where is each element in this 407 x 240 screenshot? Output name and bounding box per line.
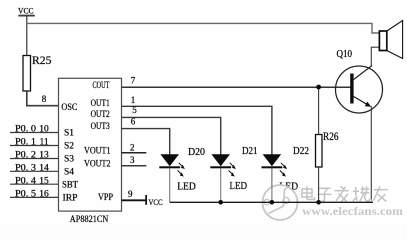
svg-text:R26: R26: [323, 131, 339, 143]
svg-text:COUT: COUT: [93, 81, 110, 91]
svg-text:P0. 2: P0. 2: [15, 151, 36, 161]
svg-text:14: 14: [39, 163, 49, 173]
svg-text:P0. 4: P0. 4: [15, 176, 36, 186]
svg-text:P0. 1: P0. 1: [15, 138, 36, 148]
svg-text:OUT1: OUT1: [91, 99, 110, 109]
wire D21 cathode to ground rail: [220, 168, 222, 202]
junction node R26/rail: [316, 200, 321, 205]
node P0.3 label row: [10, 163, 58, 173]
svg-text:13: 13: [39, 151, 49, 161]
junction node at base wire / R26: [316, 85, 321, 90]
svg-text:P0. 5: P0. 5: [15, 190, 36, 200]
transistor Q10: [336, 66, 383, 114]
watermark text dian zi fa shao you (approximated strokes): [303, 187, 389, 203]
junction node D22/rail: [270, 200, 275, 205]
svg-text:3: 3: [130, 155, 135, 165]
svg-text:OSC: OSC: [61, 103, 77, 113]
svg-text:1: 1: [131, 95, 136, 105]
svg-text:VPP: VPP: [98, 193, 113, 203]
svg-text:S3: S3: [64, 155, 74, 165]
watermark dot grid: [296, 187, 301, 199]
wire OUT1 to D22 (pin 1): [122, 106, 272, 154]
speaker LS1: [371, 21, 403, 59]
svg-text:D22: D22: [293, 146, 309, 157]
svg-text:P0. 0: P0. 0: [15, 125, 36, 135]
svg-text:7: 7: [131, 76, 136, 86]
LED D20: [159, 147, 205, 192]
svg-text:9: 9: [128, 189, 133, 199]
wire COUT to transistor base (pin 7): [122, 86, 351, 88]
svg-text:OUT2: OUT2: [91, 110, 110, 120]
node P0.5 label row: [10, 190, 58, 200]
node P0.4 label row: [10, 176, 58, 186]
wire VOUT2 stub (pin 3): [122, 165, 147, 167]
svg-text:OUT3: OUT3: [91, 122, 110, 132]
svg-text:16: 16: [39, 190, 49, 200]
svg-text:VCC: VCC: [18, 6, 34, 16]
junction node D21/rail: [218, 200, 223, 205]
node P0.1 label row: [10, 138, 58, 148]
power net VCC (top-left symbol): [18, 6, 35, 17]
svg-text:5: 5: [132, 105, 137, 115]
wire OUT2 to D21 (pin 5): [122, 117, 221, 154]
wire R26 bottom to rail: [318, 167, 320, 202]
svg-text:Q10: Q10: [337, 49, 353, 60]
svg-text:S1: S1: [64, 129, 74, 139]
svg-text:D21: D21: [242, 146, 258, 157]
svg-text:AP8821CN: AP8821CN: [70, 215, 109, 225]
node P0.2 label row: [10, 151, 58, 161]
svg-text:8: 8: [42, 94, 47, 104]
svg-text:2: 2: [130, 142, 135, 152]
wire R25 to OSC pin: [27, 91, 59, 106]
wire D22 cathode (over watermark): [271, 168, 273, 202]
watermark logo circle: [263, 185, 298, 220]
LED D22: [262, 146, 310, 192]
svg-text:S4: S4: [64, 168, 74, 178]
svg-text:IRP: IRP: [63, 194, 78, 204]
wire emitter to ground rail: [370, 106, 372, 202]
wire VPP to VCC (pin 9): [122, 199, 146, 201]
svg-text:LED: LED: [230, 181, 248, 192]
svg-text:VOUT2: VOUT2: [84, 160, 111, 170]
LED D21: [210, 146, 257, 192]
svg-text:P0. 3: P0. 3: [15, 163, 36, 173]
svg-text:15: 15: [39, 176, 49, 186]
power net VCC (right of VPP): [145, 195, 162, 207]
svg-text:LED: LED: [177, 181, 196, 192]
svg-text:VOUT1: VOUT1: [84, 146, 111, 156]
wire VOUT1 stub (pin 2): [122, 152, 147, 154]
svg-text:S2: S2: [64, 142, 74, 152]
svg-text:11: 11: [40, 138, 49, 148]
node P0.0 label row: [10, 125, 58, 135]
wire VCC stem down to R25: [26, 16, 28, 56]
svg-text:SBT: SBT: [62, 180, 78, 190]
svg-text:R25: R25: [32, 53, 52, 67]
resistor R25: [23, 53, 52, 91]
wire OUT3 to D20 (pin 6): [122, 129, 170, 155]
wire D22 cathode to ground rail: [271, 168, 273, 202]
svg-text:6: 6: [131, 117, 136, 127]
wire ground rail (bottom): [170, 201, 373, 203]
svg-text:www.elecfans.com: www.elecfans.com: [302, 206, 403, 218]
wire collector to speaker: [370, 47, 372, 65]
wire D20 cathode to ground rail: [169, 168, 171, 202]
wire top VCC rail: [27, 23, 380, 33]
wire R26 top to COUT net: [318, 87, 320, 135]
resistor R26: [316, 131, 339, 167]
svg-text:D20: D20: [188, 147, 205, 158]
svg-text:VCC: VCC: [149, 197, 163, 207]
op-amp U1 AP8821CN IC body: [59, 78, 122, 225]
svg-text:10: 10: [39, 125, 49, 135]
